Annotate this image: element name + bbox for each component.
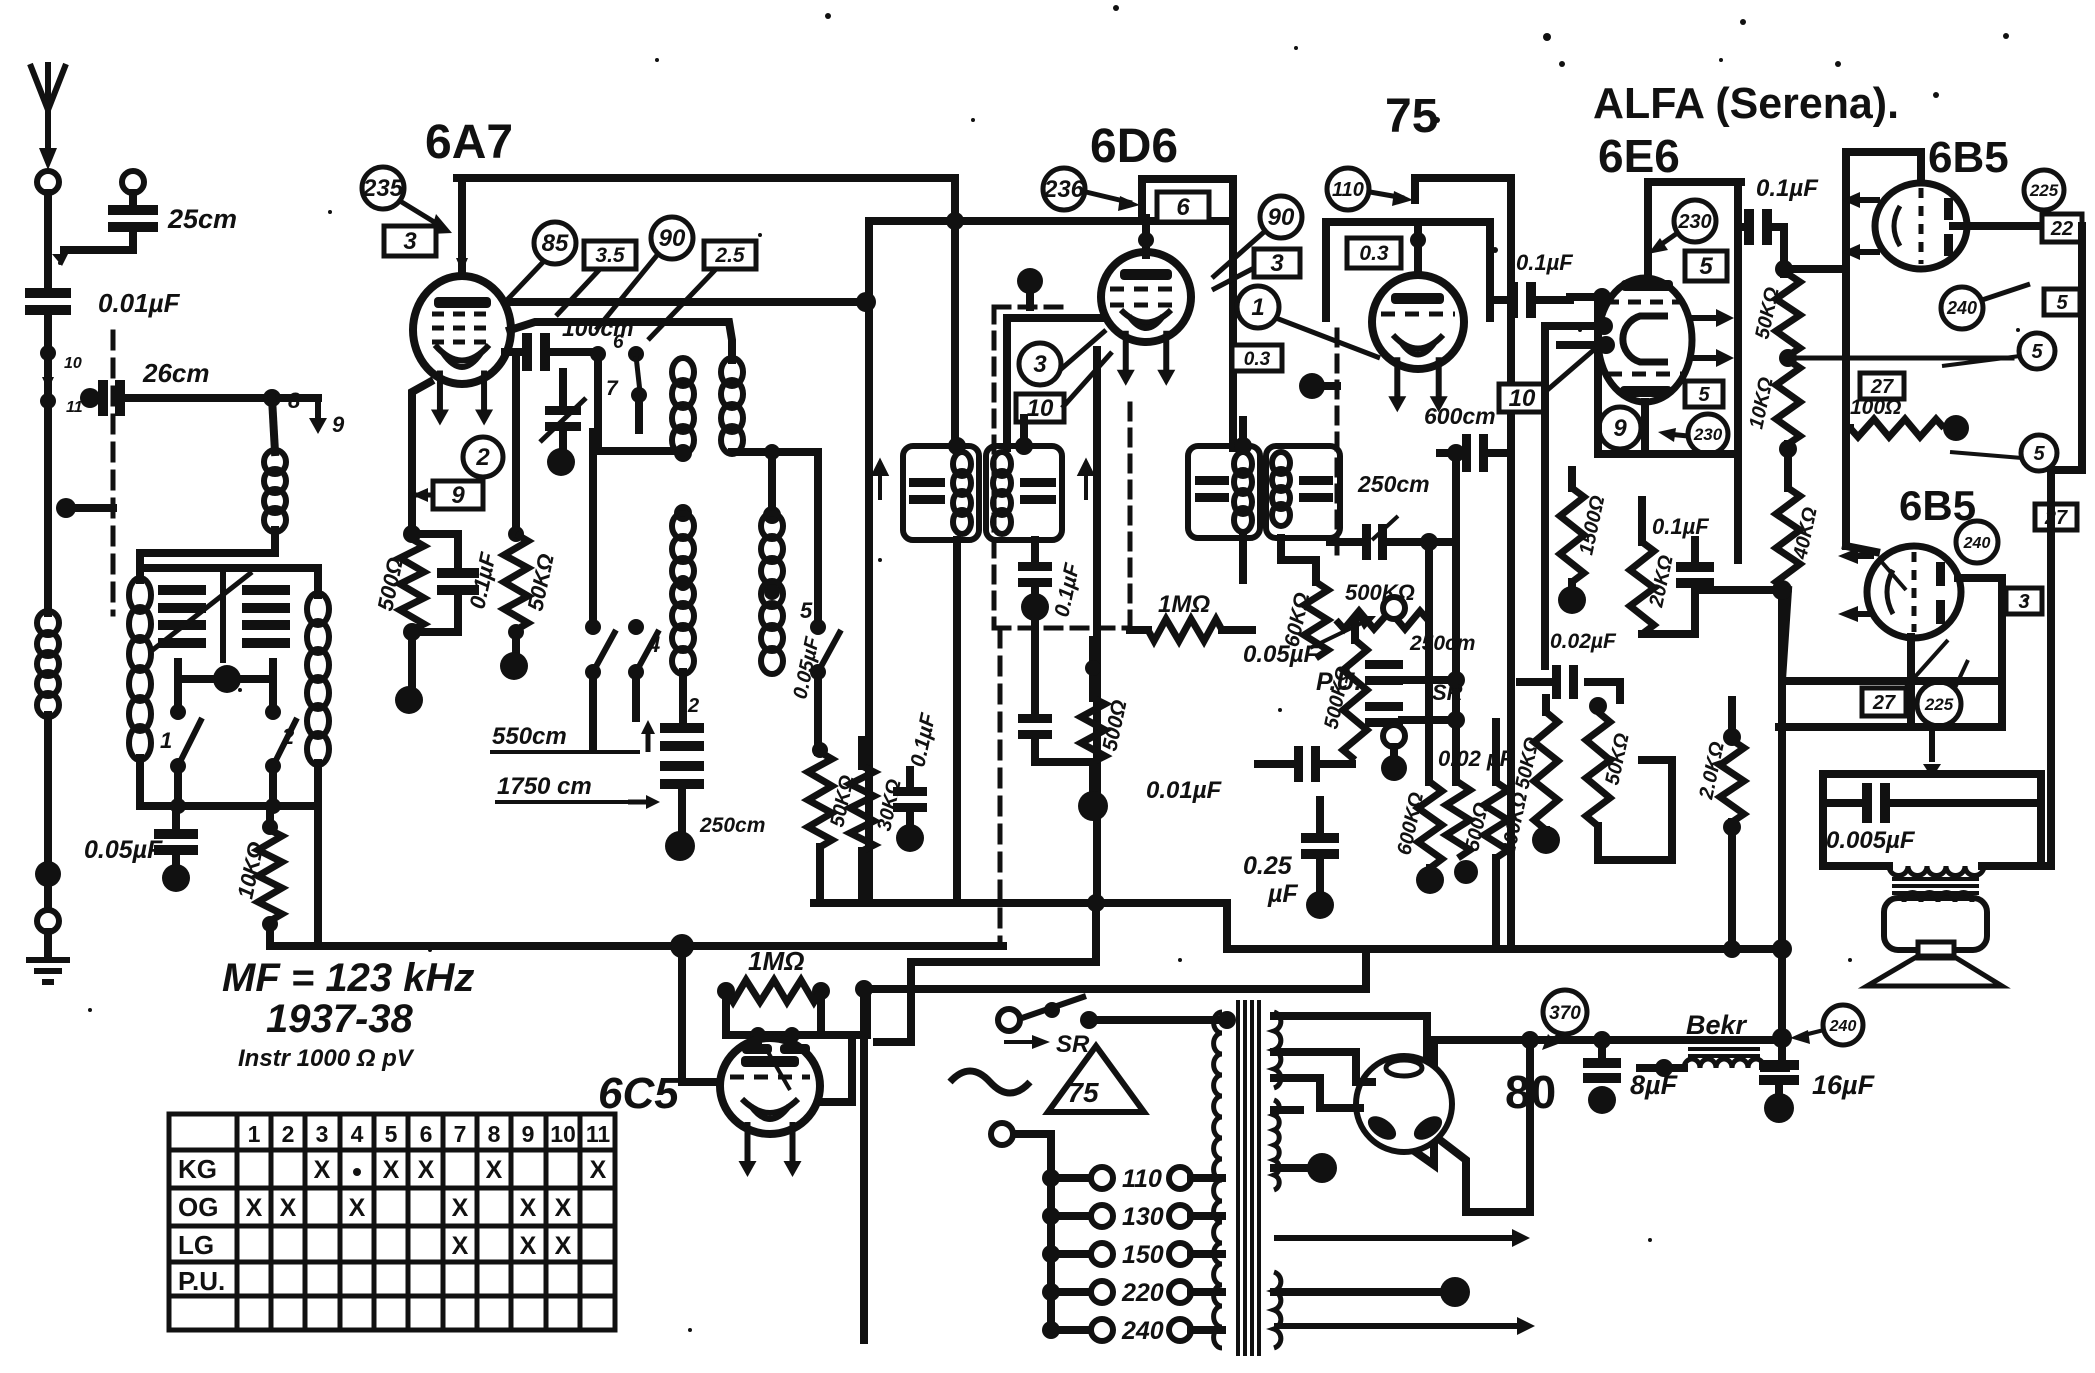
IF2 capacitor — [1020, 478, 1056, 504]
heater blob — [1440, 1277, 1470, 1307]
svg-text:9: 9 — [332, 412, 345, 437]
wire — [1492, 858, 1500, 949]
wire — [1542, 698, 1550, 712]
IF3 capacitor — [1195, 476, 1229, 502]
tap wire — [1051, 1212, 1090, 1220]
6E6 contact — [1597, 336, 1615, 354]
wire 6D6 cathode return — [1093, 350, 1101, 903]
wire — [412, 534, 458, 568]
wire HT tap 2 — [1274, 1052, 1356, 1082]
coil antenna loading — [37, 611, 59, 717]
junction — [1234, 437, 1252, 455]
svg-text:27: 27 — [1872, 692, 1896, 714]
ground blob — [665, 831, 695, 861]
switch 3 contact — [585, 664, 601, 680]
wire — [44, 932, 52, 958]
svg-text:240: 240 — [1946, 298, 1977, 318]
IF1 capacitor — [909, 478, 945, 504]
wire — [589, 432, 597, 627]
arrow 9 — [309, 400, 327, 434]
svg-text:4: 4 — [351, 1121, 364, 1147]
svg-text:X: X — [383, 1156, 400, 1184]
dashed line — [1335, 330, 1340, 560]
right rail wire upper — [2078, 226, 2086, 470]
transformer core — [1238, 1000, 1259, 1356]
wire — [1390, 747, 1398, 760]
junction — [717, 982, 735, 1000]
leader 0.05uF — [1310, 616, 1376, 648]
coil tap — [675, 575, 691, 591]
value circle 235 — [362, 167, 404, 209]
6A7 plate wire — [508, 298, 862, 306]
junction — [812, 742, 828, 758]
IF1 coil — [953, 452, 971, 534]
wire IF1 return — [953, 540, 961, 903]
SR arrow — [1004, 1035, 1050, 1049]
capacitor 26cm — [98, 380, 125, 416]
svg-text:1750 cm: 1750 cm — [497, 773, 592, 800]
junction blob — [213, 665, 241, 693]
svg-text:8µF: 8µF — [1630, 1070, 1679, 1100]
tube U7 6B5 bottom — [1867, 546, 1961, 638]
heater lead arrow 2 — [1274, 1317, 1535, 1335]
wire — [1917, 152, 1925, 184]
rail D wire — [864, 985, 1366, 993]
wire — [281, 394, 318, 402]
svg-text:X: X — [555, 1232, 572, 1260]
leader 5b — [1950, 452, 2022, 458]
trimmer arrow — [540, 398, 586, 442]
transformer HT winding mid — [1274, 1100, 1279, 1190]
wire — [1823, 799, 1862, 807]
leader 3.5 — [556, 269, 600, 316]
wire — [314, 806, 322, 946]
junction — [1772, 580, 1792, 600]
junction — [1138, 232, 1154, 248]
ground blob — [1532, 826, 1560, 854]
wire — [1089, 762, 1097, 795]
padder capacitor stack — [660, 723, 704, 789]
wire — [1274, 1106, 1300, 1114]
leader 250cm — [1372, 516, 1398, 540]
svg-text:130: 130 — [1122, 1203, 1164, 1231]
resistor 500Ω — [1446, 782, 1470, 858]
value box 3.5 — [584, 241, 636, 269]
tap wire b — [1191, 1326, 1222, 1334]
tube U8 80 rectifier — [1356, 1056, 1452, 1152]
svg-text:240: 240 — [1963, 535, 1991, 552]
junction — [1772, 1028, 1792, 1048]
junction — [1521, 1031, 1539, 1049]
svg-text:Instr 1000 Ω pV: Instr 1000 Ω pV — [238, 1045, 415, 1072]
junction — [508, 526, 524, 542]
svg-text:3: 3 — [1270, 250, 1284, 277]
junction — [1218, 1011, 1236, 1029]
switch 5 contact — [810, 619, 826, 635]
IF2 coil — [993, 452, 1011, 534]
6B5 bottom input arrows — [1838, 548, 1874, 622]
leader 240c — [1790, 1030, 1824, 1044]
wire — [1222, 626, 1252, 634]
antenna — [30, 62, 66, 170]
tube U3 75 cathode lead — [1388, 357, 1406, 412]
mains sine symbol — [950, 1071, 1030, 1093]
ground — [26, 960, 70, 982]
wire to point 8 — [127, 394, 272, 402]
IF can 4 box — [1266, 446, 1340, 538]
junction — [1080, 1011, 1098, 1029]
svg-text:0.3: 0.3 — [1359, 242, 1389, 265]
svg-text:6: 6 — [613, 332, 624, 353]
wire — [814, 674, 822, 752]
wire — [598, 356, 683, 451]
node 6 — [590, 346, 606, 362]
leader 2.5 — [648, 269, 716, 340]
switch 2 contact — [265, 758, 281, 774]
output transformer core — [1892, 879, 1979, 893]
leader 3b — [1212, 268, 1254, 290]
wire — [858, 740, 866, 766]
junction — [80, 388, 100, 408]
value box 6 — [1157, 192, 1209, 222]
leader 230 — [1648, 234, 1676, 254]
switch 4 contact — [628, 664, 644, 680]
svg-text:110: 110 — [1332, 179, 1364, 201]
svg-text:75: 75 — [1385, 90, 1438, 143]
wire — [906, 813, 914, 828]
svg-text:Bekr: Bekr — [1686, 1010, 1748, 1040]
junction — [1779, 440, 1797, 458]
switch 7 blade — [636, 356, 640, 392]
svg-text:27: 27 — [1870, 376, 1894, 398]
tube U6 6C5 — [720, 1038, 820, 1134]
wire — [1520, 678, 1552, 686]
6B5 top input arrows — [1842, 192, 1880, 260]
junction — [1447, 444, 1465, 462]
junction — [35, 861, 61, 887]
svg-text:230: 230 — [1693, 425, 1723, 444]
6C5 internal — [768, 1052, 790, 1090]
junction — [265, 798, 281, 814]
svg-text:0.1µF: 0.1µF — [1756, 175, 1819, 202]
wire — [552, 348, 598, 356]
antenna lead wire — [44, 193, 52, 286]
value circle 230 — [1688, 414, 1728, 454]
P.U. terminal 2 — [1383, 725, 1405, 747]
leader 1 — [1276, 318, 1380, 358]
wire 6A7 cathode — [412, 382, 430, 534]
value box 10 — [1016, 394, 1064, 422]
wire — [1092, 903, 1100, 962]
6C5 plate wire — [820, 1035, 852, 1102]
wire stub — [877, 1038, 911, 1046]
wire to 6C5 grid — [682, 946, 723, 1082]
wire — [172, 855, 180, 866]
leader 10b — [1545, 348, 1596, 392]
capacitor 0.1µF — [437, 568, 479, 595]
junction — [1015, 437, 1033, 455]
long vertical wire — [865, 221, 873, 903]
tap wire — [1051, 1174, 1090, 1182]
svg-text:6A7: 6A7 — [425, 116, 513, 169]
junction — [1779, 349, 1797, 367]
svg-text:X: X — [418, 1156, 435, 1184]
junction — [784, 1027, 800, 1043]
resistor 1500Ω — [1560, 488, 1584, 582]
svg-text:SR: SR — [1432, 680, 1463, 705]
value box 10 — [1499, 384, 1545, 412]
wire — [1890, 799, 2041, 807]
dashed AVC box bottom — [994, 626, 1130, 631]
wire 6B5 box top — [1846, 148, 1921, 156]
tube U3 75 — [1372, 275, 1464, 369]
junction — [812, 982, 830, 1000]
wire — [1598, 1040, 1606, 1056]
junction — [1775, 260, 1793, 278]
coil tap — [764, 584, 780, 600]
svg-text:240: 240 — [1121, 1317, 1164, 1345]
trimmer capacitor D — [242, 620, 290, 648]
vertical bus wire — [951, 178, 959, 446]
wire — [726, 1031, 851, 1039]
wire — [1356, 1078, 1372, 1086]
svg-text:4: 4 — [647, 632, 660, 657]
svg-text:240: 240 — [1829, 1018, 1857, 1035]
choke Bekr winding — [1684, 1059, 1764, 1068]
tube U6 6C5 heater lead — [784, 1122, 802, 1177]
svg-text:236: 236 — [1043, 176, 1085, 203]
wire feed 600KΩ — [1425, 542, 1433, 782]
IF can 1 box — [903, 446, 979, 540]
junction — [1723, 818, 1741, 836]
junction blob — [670, 934, 694, 958]
svg-text:250cm: 250cm — [1357, 471, 1430, 497]
blob — [1017, 268, 1043, 294]
wire — [178, 675, 273, 683]
wire — [136, 758, 144, 806]
bus wire — [1779, 723, 2002, 731]
junction — [764, 444, 780, 460]
wire feed 500Ω — [1452, 453, 1460, 782]
tap wire b — [1191, 1174, 1222, 1182]
right rail wire lower — [2051, 470, 2082, 866]
wire — [1695, 586, 1779, 594]
wire — [314, 568, 322, 595]
resistor 10KΩ — [258, 830, 282, 921]
arrow junction — [1923, 727, 1941, 778]
ground blob — [1078, 791, 1108, 821]
wire — [1362, 949, 1370, 989]
speaker neck — [1918, 942, 1954, 958]
svg-text:150: 150 — [1122, 1241, 1164, 1269]
wire 6A7 top cap — [458, 178, 466, 276]
wire — [1536, 297, 1598, 300]
svg-text:235: 235 — [362, 175, 404, 202]
svg-text:X: X — [280, 1194, 297, 1222]
wire — [1138, 179, 1146, 218]
svg-text:16µF: 16µF — [1812, 1070, 1876, 1100]
ground blob — [547, 448, 575, 476]
wire — [412, 595, 458, 632]
node 8 — [263, 389, 281, 407]
wire 6B5 box left — [1842, 152, 1850, 333]
svg-text:225: 225 — [2029, 181, 2059, 200]
resistor 50KΩ b — [1586, 712, 1610, 826]
svg-text:6C5: 6C5 — [598, 1069, 679, 1118]
ground terminal — [37, 910, 59, 932]
svg-text:X: X — [314, 1156, 331, 1184]
IF trimmer arrow — [874, 462, 886, 500]
capacitor 16µF — [1759, 1060, 1799, 1085]
resistor 20KΩ — [1630, 542, 1654, 634]
resistor 2.0KΩ — [1720, 740, 1744, 822]
wire top of tuning block — [140, 564, 318, 572]
wire — [1390, 538, 1456, 546]
wire — [1330, 538, 1362, 546]
wire — [1778, 590, 1786, 681]
blob — [1299, 373, 1325, 399]
junction — [1723, 728, 1741, 746]
junction — [1593, 1031, 1611, 1049]
wire — [1322, 222, 1330, 318]
underline 1750cm — [495, 800, 628, 804]
wire — [906, 770, 914, 787]
tap terminal 240 — [1091, 1319, 1113, 1341]
wire — [722, 991, 730, 1035]
junction — [674, 444, 692, 462]
junction — [1589, 697, 1607, 715]
value circle 3 — [1019, 343, 1061, 385]
svg-text:600cm: 600cm — [1424, 403, 1496, 429]
capacitor 0.1µF — [1018, 562, 1052, 587]
wire feed 0.02µF — [1541, 332, 1549, 666]
wire 6D6 box top — [1142, 175, 1233, 183]
tap terminal 110 — [1091, 1167, 1113, 1189]
wire from tube bottom — [1907, 637, 1915, 727]
svg-text:P.U.: P.U. — [178, 1266, 225, 1296]
coil antenna coupling — [264, 450, 286, 532]
wire — [136, 568, 144, 580]
speaker magnet — [1884, 898, 1987, 950]
leader 370 — [1542, 1034, 1560, 1050]
wire — [1014, 1130, 1051, 1138]
capacitor 100cm — [522, 333, 550, 371]
svg-text:0.25: 0.25 — [1243, 852, 1293, 880]
wire — [1277, 538, 1285, 560]
dashed AVC box right — [1128, 404, 1133, 628]
svg-text:110: 110 — [1122, 1165, 1162, 1193]
svg-text:0.02µF: 0.02µF — [1550, 630, 1617, 653]
wire — [1274, 1164, 1310, 1172]
wire — [174, 766, 182, 806]
capacitor 0.1µF — [1676, 562, 1714, 588]
resistor 50KΩ — [504, 534, 528, 630]
dashed AVC box top — [994, 305, 1062, 310]
mains terminal 2 — [991, 1123, 1013, 1145]
wire — [1778, 949, 1786, 1058]
wire — [1823, 774, 1889, 866]
wire — [220, 568, 226, 660]
wire — [1031, 540, 1039, 562]
svg-text:X: X — [555, 1194, 572, 1222]
resistor 200KΩ — [1484, 782, 1508, 858]
svg-text:X: X — [452, 1194, 469, 1222]
value box 3 — [2006, 588, 2042, 614]
wire — [174, 662, 182, 712]
svg-text:0.01µF: 0.01µF — [1146, 777, 1223, 804]
wire — [1316, 800, 1324, 833]
value box 0.3 — [1232, 345, 1282, 371]
leader 27b — [1954, 660, 1968, 690]
wire — [1728, 700, 1736, 740]
tap junction — [1042, 1169, 1060, 1187]
wire — [589, 674, 597, 750]
switch 1 contact — [170, 758, 186, 774]
svg-text:3: 3 — [403, 228, 417, 255]
capacitor 0.25µF — [1301, 833, 1339, 859]
switch 1 contact — [170, 704, 186, 720]
wire — [1998, 578, 2006, 727]
tap terminal 150 b — [1169, 1243, 1191, 1265]
leader 9 — [412, 488, 433, 502]
tube U1 6A7 heater lead — [475, 371, 493, 426]
wire — [1281, 560, 1316, 582]
value box 5 — [2044, 289, 2080, 315]
svg-text:1: 1 — [248, 1121, 261, 1147]
switch 4 contact — [628, 619, 644, 635]
svg-text:OG: OG — [178, 1192, 218, 1222]
wire — [505, 348, 523, 356]
wire — [266, 924, 274, 946]
svg-text:9: 9 — [522, 1121, 535, 1147]
wire — [1402, 676, 1456, 684]
wire — [44, 715, 52, 868]
wire — [269, 766, 277, 806]
leader 10 — [1062, 352, 1112, 408]
svg-text:MF = 123 kHz: MF = 123 kHz — [222, 956, 474, 1000]
value circle 5 — [2021, 435, 2057, 471]
value box 27 — [1862, 688, 1906, 716]
speaker cone — [1867, 956, 2002, 986]
wire — [1691, 588, 1699, 634]
wire — [1492, 722, 1500, 782]
P.U. terminal — [1383, 597, 1405, 619]
tap wire b — [1191, 1250, 1222, 1258]
wire — [1351, 620, 1359, 640]
wire — [754, 1035, 762, 1048]
wire — [851, 989, 867, 1035]
wire — [266, 806, 274, 830]
heater lead arrow — [1274, 1229, 1530, 1247]
6E6 diode arrow 2 — [1688, 349, 1734, 367]
coil oscillator grid — [672, 358, 694, 454]
capacitor 600cm — [1462, 434, 1488, 472]
junction — [1447, 711, 1465, 729]
svg-text:370: 370 — [1549, 1003, 1581, 1024]
tap wire — [1051, 1326, 1090, 1334]
wire — [1846, 546, 1876, 552]
resistor 50KΩ a — [1534, 712, 1558, 830]
wire — [1638, 500, 1646, 542]
capacitor 0.01µF — [1294, 746, 1320, 782]
wire — [788, 1035, 796, 1048]
wire — [1642, 630, 1695, 638]
ground blob — [1306, 891, 1334, 919]
rectifier output wire — [1440, 1040, 1530, 1212]
svg-text:5: 5 — [2033, 443, 2045, 465]
underline 550cm — [490, 750, 640, 754]
svg-text:X: X — [246, 1194, 263, 1222]
